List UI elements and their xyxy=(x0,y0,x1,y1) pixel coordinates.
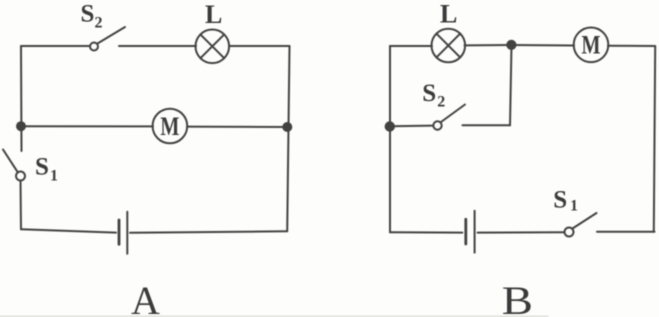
lamp L (circuit B) xyxy=(432,29,466,63)
svg-text:1: 1 xyxy=(50,168,58,185)
wire: A left vertical upper (corner through node to S1) xyxy=(20,46,23,151)
svg-text:S: S xyxy=(553,187,567,214)
svg-text:S: S xyxy=(81,1,95,28)
wire: A middle, motor to right node xyxy=(187,126,287,128)
wire: B top-left (corner to lamp) xyxy=(390,45,432,47)
svg-text:M: M xyxy=(160,112,179,141)
wire: A top, S2 to lamp xyxy=(119,45,196,47)
svg-text:S: S xyxy=(422,80,436,107)
switch S1 (circuit A) xyxy=(3,150,25,181)
wire: A top-left horizontal (corner to S2) xyxy=(21,45,89,47)
node: B left junction xyxy=(386,122,394,130)
motor M (circuit B) xyxy=(574,28,609,63)
svg-text:M: M xyxy=(582,30,601,59)
label S1 (circuit A) xyxy=(35,154,58,185)
scan artifact: faint bottom edge line xyxy=(0,315,548,317)
wire: A left vertical lower (S1 to bottom corner) xyxy=(20,181,23,230)
node: A middle-left junction xyxy=(17,122,25,130)
wire: A middle, left node to motor xyxy=(21,125,153,127)
label S2 (circuit A) xyxy=(81,1,103,32)
wire: B bottom, battery to S1 xyxy=(478,231,565,233)
node: B top junction xyxy=(507,41,515,49)
label S1 (circuit B) xyxy=(553,187,578,215)
node: A middle-right junction xyxy=(283,123,291,131)
switch S1 (circuit B) xyxy=(565,213,597,237)
wire: B right vertical xyxy=(654,46,655,232)
wire: B top, junction to motor xyxy=(512,44,575,47)
svg-text:S: S xyxy=(35,154,49,181)
wire: B branch, left node to S2 xyxy=(390,125,433,128)
motor M (circuit A) xyxy=(153,109,188,144)
wire: B top, lamp to junction xyxy=(465,44,512,46)
label S2 (circuit B) xyxy=(422,80,445,111)
battery (circuit A) xyxy=(119,212,127,254)
wire: B bottom, left of battery xyxy=(390,231,462,233)
switch S2 (circuit A) xyxy=(90,27,125,51)
battery (circuit B) xyxy=(466,211,475,253)
wire: B left vertical xyxy=(389,46,391,232)
lamp L (circuit A) xyxy=(196,30,230,64)
svg-text:2: 2 xyxy=(437,94,445,111)
wire: A right vertical xyxy=(287,46,289,231)
svg-text:A: A xyxy=(131,278,160,317)
svg-text:L: L xyxy=(440,0,457,29)
wire: B top, motor to right corner xyxy=(608,45,655,47)
wire: A bottom, left of battery xyxy=(21,229,116,232)
svg-text:B: B xyxy=(502,279,533,317)
wire: A top, lamp to right corner xyxy=(229,45,290,47)
switch S2 (circuit B) xyxy=(433,105,465,130)
wire: B branch, S2 fixed contact to drop wire xyxy=(463,124,511,126)
wire: B bottom, S1 to right corner xyxy=(597,231,655,233)
svg-text:1: 1 xyxy=(570,198,578,215)
wire: B vertical drop from top junction to S2 branch xyxy=(510,45,512,125)
svg-text:2: 2 xyxy=(95,15,103,32)
wire: A bottom, right of battery xyxy=(130,231,287,233)
svg-text:L: L xyxy=(205,0,222,29)
